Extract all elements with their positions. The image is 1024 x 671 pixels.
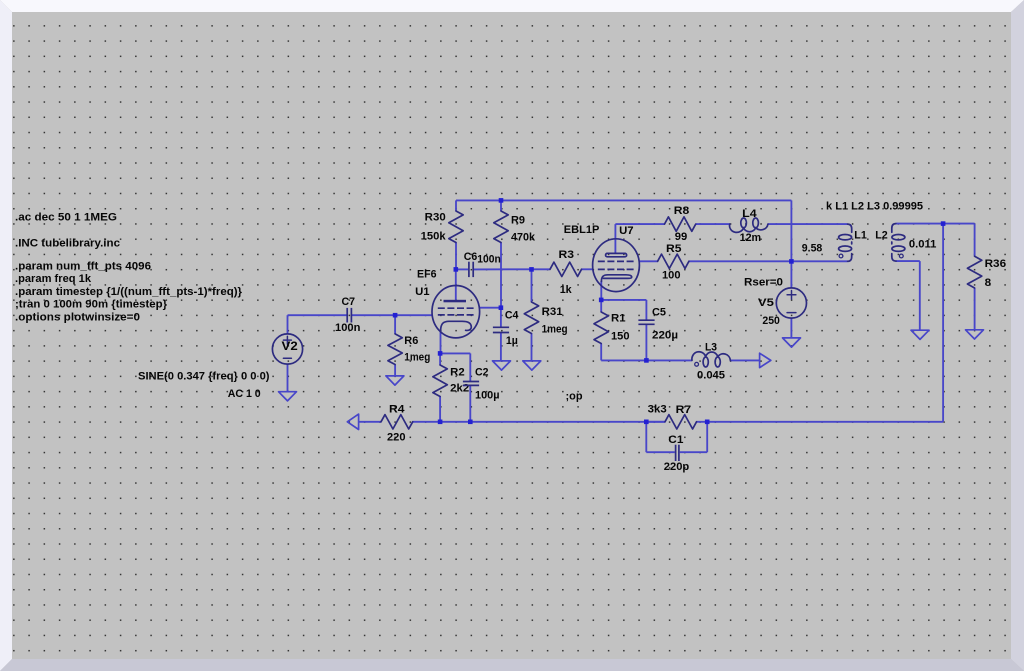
resistor R5 [658, 254, 689, 268]
capacitor C1 [675, 445, 677, 461]
svg-text:L3: L3 [705, 341, 717, 353]
wire cathode node to C2 [440, 352, 470, 354]
tube U1 anode [444, 300, 467, 303]
ground L2 [911, 330, 929, 339]
inductor L1 [848, 224, 852, 232]
svg-text:.param freq 1k: .param freq 1k [15, 273, 92, 285]
node R7 right [705, 420, 710, 425]
svg-text:L4: L4 [742, 208, 757, 220]
wire R36 top lead [974, 224, 976, 257]
wire L2 to ground [919, 261, 921, 330]
wire V2 top lead [287, 315, 289, 334]
wire C1 left lead [646, 451, 675, 453]
inductor L2 [892, 224, 896, 233]
svg-text:Rser=0: Rser=0 [744, 276, 783, 288]
svg-text:C4: C4 [505, 310, 519, 322]
wire top B+ rail [456, 199, 791, 201]
wire R9 bottom lead [500, 243, 502, 308]
capacitor C4 [493, 326, 509, 328]
svg-text:8: 8 [985, 277, 992, 289]
wire R1 top lead [600, 300, 602, 312]
wire V2 to C7 [288, 314, 347, 316]
svg-text:R36: R36 [985, 258, 1007, 270]
wire C2 top lead [469, 353, 471, 381]
wire U1 screen to C4 node [479, 307, 501, 309]
wire R7 right lead [697, 421, 708, 423]
svg-text:V5: V5 [758, 297, 774, 309]
node feedback [941, 221, 946, 226]
wire R5 to V5 node to L1 [689, 260, 848, 262]
resistor R8 [665, 217, 696, 231]
resistor R6 [388, 334, 402, 365]
svg-text:;tran 0 100m 90m {timestep}: ;tran 0 100m 90m {timestep} [15, 299, 168, 311]
inductor L2 phase dot [899, 254, 903, 258]
svg-text:1meg: 1meg [542, 324, 568, 336]
wire R30 bottom lead [455, 243, 457, 270]
tube U7 anode [606, 253, 627, 256]
wire R3 to U7 grid [582, 268, 593, 270]
svg-text:R6: R6 [404, 335, 418, 347]
node B+ V5 [789, 259, 794, 264]
svg-text:0.045: 0.045 [697, 369, 725, 381]
wire C2 bottom lead [469, 386, 471, 422]
inductor L3 [692, 352, 731, 361]
wire C1 right vertical [706, 422, 708, 452]
wire R7 to feedback corner [707, 421, 943, 423]
wire C4 top lead [500, 308, 502, 328]
svg-text:R30: R30 [425, 212, 446, 224]
wire U7 plate to R8 [615, 223, 664, 225]
inductor L3 phase dot [695, 362, 699, 366]
node screen U1 [499, 305, 504, 310]
output port arrow [760, 353, 771, 367]
voltage source V5 [776, 288, 806, 318]
tube U7 cathode [601, 275, 631, 282]
svg-text:EBL1P: EBL1P [564, 224, 600, 236]
wire node plate U1 to C6 [456, 268, 468, 270]
tube U7 grid g2 dashes [598, 260, 635, 262]
voltage source V2 [272, 334, 302, 364]
capacitor C2 [463, 381, 479, 383]
wire R2 top lead [439, 353, 441, 365]
wire L2 bottom lead [896, 260, 920, 262]
wire R5 left lead [639, 260, 657, 262]
tube U7 grid g1 dashes [598, 268, 635, 270]
resistor R36 [967, 256, 981, 288]
resistor R2 [433, 365, 447, 397]
node C2 bottom [468, 420, 473, 425]
tube U1 grid g2 dashes [438, 307, 475, 309]
svg-text:250: 250 [762, 315, 780, 327]
wire R31 top lead [531, 269, 533, 302]
ground V2 [279, 392, 297, 401]
wire R4 to R7 [413, 421, 665, 423]
wire rail to V5 [790, 200, 792, 288]
svg-text:R31: R31 [542, 306, 563, 318]
svg-text:R7: R7 [676, 404, 692, 416]
svg-text:AC 1 0: AC 1 0 [228, 388, 261, 400]
wire C1 right lead [680, 451, 707, 453]
wire V5 bottom lead [790, 318, 792, 338]
inductor L1 phase dot [839, 254, 843, 258]
tube U1 cathode [441, 321, 472, 331]
svg-text:R2: R2 [450, 366, 465, 378]
svg-text:.ac dec 50 1 1MEG: .ac dec 50 1 1MEG [15, 211, 117, 223]
resistor R3 [550, 262, 582, 276]
svg-text:150k: 150k [421, 231, 447, 243]
wire R6 top lead [394, 315, 396, 334]
wire U7 cathode lead [600, 281, 602, 300]
svg-text:1k: 1k [560, 284, 573, 296]
svg-text:12m: 12m [740, 232, 762, 244]
capacitor C5 [638, 319, 654, 321]
tube U7 EBL1P envelope [593, 239, 640, 292]
svg-text:V2: V2 [282, 339, 298, 353]
wire C1 left vertical [645, 422, 647, 452]
svg-text:220µ: 220µ [652, 329, 678, 341]
svg-text:100: 100 [662, 269, 681, 281]
wire C5 bottom lead [645, 324, 647, 360]
svg-text:1meg: 1meg [404, 352, 430, 364]
svg-text:U1: U1 [415, 286, 430, 298]
svg-text:L2: L2 [875, 230, 888, 242]
wire U1 plate lead [455, 269, 457, 300]
svg-text:.param num_fft_pts 4096: .param num_fft_pts 4096 [15, 261, 151, 273]
wire R9 top lead [500, 200, 502, 211]
svg-text:SINE(0 0.347 {freq} 0 0 0): SINE(0 0.347 {freq} 0 0 0) [138, 371, 270, 383]
resistor R9 [494, 211, 508, 243]
wire C7 to U1 grid [352, 314, 432, 316]
svg-text:2k2: 2k2 [450, 383, 469, 395]
svg-text:C2: C2 [475, 366, 489, 378]
svg-text:R3: R3 [559, 249, 575, 261]
svg-text:k L1 L2 L3 0.99995: k L1 L2 L3 0.99995 [826, 201, 923, 213]
wire R2 bottom lead [439, 397, 441, 422]
svg-text:470k: 470k [511, 232, 536, 244]
wire R1 bottom lead [600, 344, 602, 361]
node R7 left [644, 420, 649, 425]
svg-text:150: 150 [611, 330, 630, 342]
svg-text:U7: U7 [619, 225, 634, 237]
node cathode U7 [599, 298, 604, 303]
svg-text:9.58: 9.58 [802, 243, 823, 255]
svg-text:C5: C5 [652, 306, 666, 318]
ground R31 [523, 361, 541, 370]
svg-text:0.011: 0.011 [909, 238, 937, 250]
svg-text:1µ: 1µ [506, 335, 518, 347]
resistor R1 [594, 312, 608, 344]
wire C5 top lead [645, 300, 647, 320]
svg-text:220: 220 [387, 431, 406, 443]
node rail R9 [499, 198, 504, 203]
wire cathode node to C5 [601, 299, 646, 301]
svg-text:.INC tubelibrary.inc: .INC tubelibrary.inc [15, 238, 120, 250]
node plate U1 [454, 267, 459, 272]
wire L4 to L1 [768, 223, 848, 225]
svg-text:100n: 100n [335, 322, 361, 334]
node R2 bottom [438, 420, 443, 425]
svg-text:99: 99 [675, 231, 688, 243]
resistor R7 [665, 415, 697, 429]
ground V5 [783, 338, 801, 347]
wire R7 left lead [646, 421, 665, 423]
wire L3 to output arrow [730, 359, 759, 361]
svg-text:R4: R4 [389, 403, 405, 415]
inductor L4 [730, 224, 768, 232]
svg-text:C1: C1 [668, 434, 683, 446]
wire R1 to L3 [601, 359, 692, 361]
wire feedback vertical [942, 224, 944, 422]
resistor R4 [381, 415, 413, 429]
wire R6 bottom lead [394, 365, 396, 376]
ground R6 [386, 376, 404, 385]
wire C6 to R3 [474, 268, 550, 270]
svg-text:3k3: 3k3 [648, 403, 667, 415]
node grid U1 [393, 313, 398, 318]
wire U1 cathode lead [440, 331, 442, 354]
wire L2 top to feedback node [896, 223, 975, 225]
svg-text:C7: C7 [342, 296, 356, 308]
node R31 top [529, 267, 534, 272]
wire input arrow to R4 [359, 421, 381, 423]
input port arrow [347, 414, 358, 429]
svg-text:100n: 100n [477, 254, 501, 266]
svg-text:R1: R1 [611, 312, 626, 324]
wire R8 to L4 [696, 223, 730, 225]
resistor R31 [524, 302, 538, 334]
wire V2 bottom lead [287, 364, 289, 392]
ground R36 [966, 330, 984, 339]
ground C4 [493, 361, 511, 370]
svg-text:C6: C6 [464, 251, 478, 263]
node C5 bottom [644, 358, 649, 363]
tube U1 grid g1 dashes [438, 314, 475, 316]
wire C4 bottom lead [500, 333, 502, 361]
wire R31 bottom lead [531, 334, 533, 361]
capacitor C7 [346, 308, 348, 323]
svg-text:100µ: 100µ [475, 390, 500, 402]
svg-text:R9: R9 [511, 215, 525, 227]
svg-text:EF6: EF6 [417, 269, 437, 281]
capacitor C6 [468, 262, 470, 277]
tube U1 EF6 envelope [432, 286, 480, 338]
node cathode U1 [438, 351, 443, 356]
svg-text:.param timestep {1/((num_fft_p: .param timestep {1/((num_fft_pts-1)*freq… [15, 286, 243, 298]
wire U7 plate lead [614, 224, 616, 253]
wire R30 top lead [455, 200, 457, 211]
wire R36 bottom lead [974, 288, 976, 330]
svg-text:R8: R8 [674, 205, 690, 217]
svg-text:.options plotwinsize=0: .options plotwinsize=0 [15, 312, 140, 324]
svg-text:;op: ;op [566, 390, 583, 402]
svg-text:L1: L1 [854, 230, 867, 242]
resistor R30 [449, 211, 463, 243]
svg-text:220p: 220p [664, 461, 690, 473]
svg-text:R5: R5 [666, 243, 682, 255]
